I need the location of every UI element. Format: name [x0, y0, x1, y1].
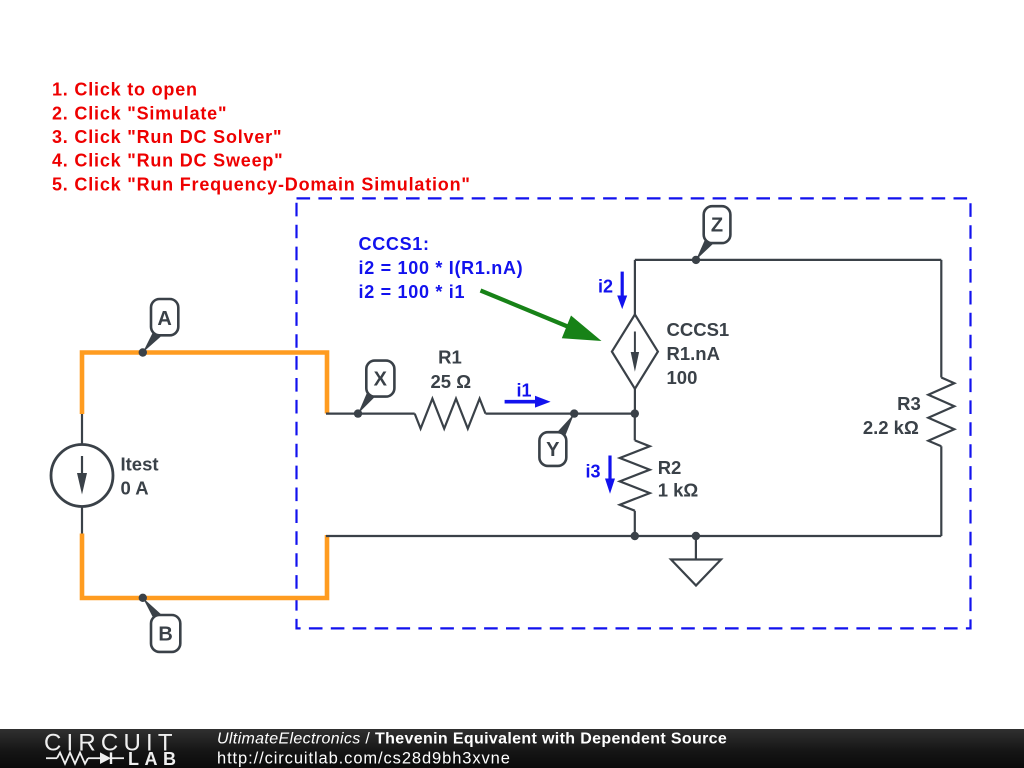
current source Itest [51, 414, 113, 534]
svg-text:0 A: 0 A [121, 478, 149, 499]
node Y pointer [557, 414, 574, 437]
node B dot [139, 594, 147, 602]
node B label [151, 615, 180, 652]
svg-text:i3: i3 [586, 462, 601, 482]
current label i3 with arrow [586, 456, 616, 494]
node Y dot [570, 409, 578, 417]
junction dot at CCCS/R2/wire [631, 409, 639, 417]
node X dot [354, 409, 362, 417]
resistor R3 [928, 378, 954, 447]
svg-text:Y: Y [546, 439, 560, 461]
value label R1 / 25 ohm [431, 347, 472, 393]
svg-text:A: A [157, 308, 171, 330]
dependent source CCCS1 (diamond) [612, 260, 658, 414]
svg-text:Z: Z [711, 215, 723, 237]
node X pointer [358, 392, 375, 414]
node Y label [539, 432, 566, 466]
annotation: green arrow to CCCS1 [481, 291, 602, 342]
svg-text:i2 = 100 * I(R1.nA): i2 = 100 * I(R1.nA) [359, 258, 524, 278]
svg-text:B: B [158, 624, 172, 646]
current label i1 with arrow [505, 381, 551, 408]
node A label [151, 299, 178, 335]
svg-text:R1: R1 [438, 347, 462, 368]
wire: net A orange highlighted (top-left loop) [82, 353, 327, 415]
svg-text:R3: R3 [897, 393, 921, 414]
svg-text:LAB: LAB [128, 749, 182, 768]
annotation: red instruction list [52, 80, 471, 195]
wire: bottom ground rail [326, 535, 941, 537]
svg-text:i1: i1 [517, 381, 532, 401]
value label Itest / 0 A [121, 454, 159, 499]
node Z pointer [696, 239, 713, 260]
annotation: CCCS1 equations (blue) [359, 234, 524, 302]
svg-text:R2: R2 [658, 457, 682, 478]
svg-text:25 Ω: 25 Ω [431, 371, 472, 392]
node A dot [139, 348, 147, 356]
resistor R1 [415, 399, 486, 429]
value label CCCS1 / R1.nA / 100 [667, 319, 730, 388]
svg-text:CCCS1: CCCS1 [667, 319, 730, 340]
value label R2 / 1 kohm [658, 457, 699, 501]
node X label [366, 361, 394, 397]
svg-text:2. Click "Simulate": 2. Click "Simulate" [52, 103, 227, 123]
svg-text:3. Click "Run DC Solver": 3. Click "Run DC Solver" [52, 127, 282, 147]
svg-text:CCCS1:: CCCS1: [359, 234, 430, 254]
svg-text:i2: i2 [598, 277, 613, 297]
svg-text:2.2 kΩ: 2.2 kΩ [863, 417, 919, 438]
svg-text:UltimateElectronics / Thevenin: UltimateElectronics / Thevenin Equivalen… [217, 730, 727, 747]
wire: top rail node Z [635, 259, 941, 261]
svg-text:R1.nA: R1.nA [667, 343, 720, 364]
footer: CircuitLab logo schematic symbol (resistor + diode) [46, 752, 124, 764]
annotation: blue dashed selection box [297, 198, 971, 628]
svg-text:1 kΩ: 1 kΩ [658, 480, 699, 501]
svg-text:i2 = 100 * i1: i2 = 100 * i1 [359, 282, 466, 302]
wire: node X horizontal wire from orange corner through R1 to CCCS bottom [326, 413, 415, 415]
wire: net B orange highlighted (bottom-left loop) [82, 534, 327, 599]
ground [671, 536, 721, 586]
node Z label [704, 206, 731, 243]
resistor R2 [620, 414, 650, 536]
node A pointer [143, 331, 161, 352]
current label i2 with arrow [598, 272, 627, 310]
svg-text:4. Click "Run DC Sweep": 4. Click "Run DC Sweep" [52, 151, 284, 171]
svg-text:Itest: Itest [121, 454, 159, 475]
junction dot at R2 bottom on ground rail [631, 532, 639, 540]
svg-text:100: 100 [667, 367, 698, 388]
junction dot at ground stem on rail [692, 532, 700, 540]
wire: R3 branch verticals [940, 260, 942, 378]
svg-text:1. Click to open: 1. Click to open [52, 80, 198, 100]
node Z dot [692, 256, 700, 264]
svg-text:X: X [374, 369, 388, 391]
svg-text:http://circuitlab.com/cs28d9bh: http://circuitlab.com/cs28d9bh3xvne [217, 750, 511, 768]
footer: black bar [0, 729, 1024, 768]
svg-text:5. Click "Run Frequency-Domain: 5. Click "Run Frequency-Domain Simulatio… [52, 174, 471, 194]
value label R3 / 2.2 kohm [863, 393, 921, 438]
node B pointer [143, 598, 162, 620]
